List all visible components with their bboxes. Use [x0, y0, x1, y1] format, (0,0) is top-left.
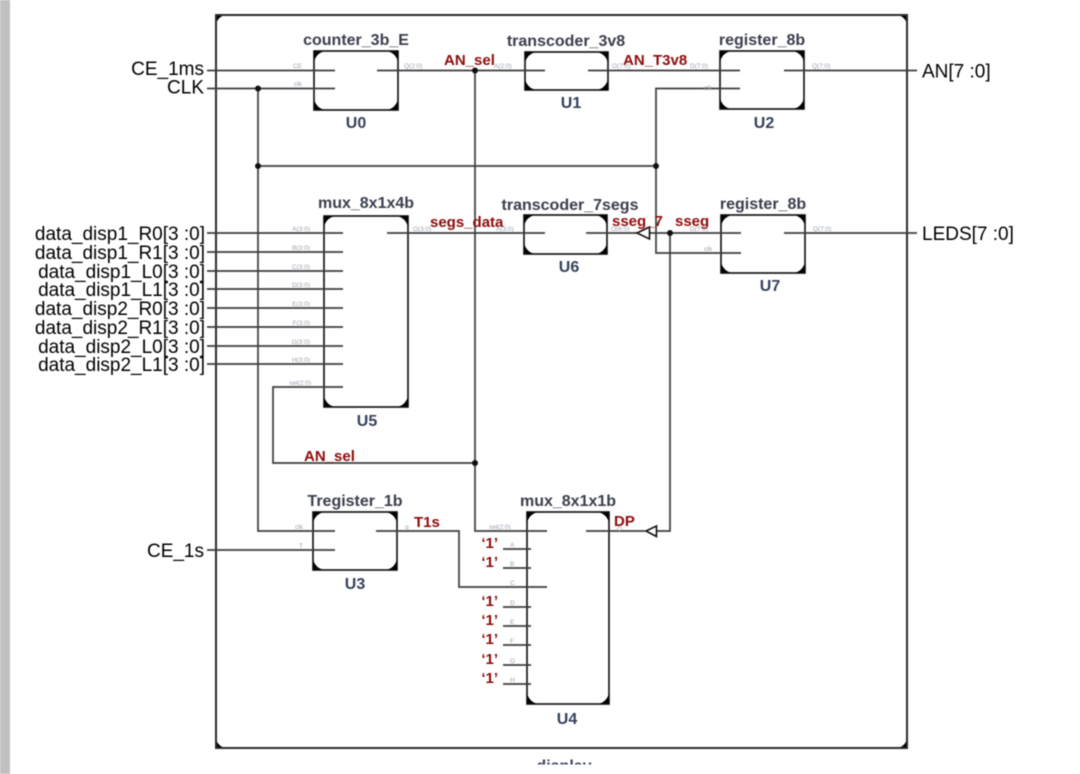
- sheet name display (clipped): [536, 758, 591, 774]
- pin stub U4.A: [503, 548, 531, 550]
- svg-text:AN_T3v8: AN_T3v8: [623, 52, 687, 69]
- block U3 Tregister_1b: [313, 512, 397, 570]
- wire data_disp1_R1 to U5.B: [207, 251, 343, 253]
- svg-text:E: E: [510, 619, 515, 626]
- wire CLK vertical trunk: [258, 89, 335, 532]
- svg-text:data_disp1_L1[3 :0]: data_disp1_L1[3 :0]: [38, 280, 205, 301]
- svg-text:U7: U7: [760, 278, 781, 295]
- svg-text:C: C: [510, 580, 515, 587]
- svg-text:AN_sel: AN_sel: [444, 52, 495, 69]
- block U6 transcoder_7segs: [524, 215, 607, 254]
- svg-text:A(3:0): A(3:0): [496, 226, 514, 233]
- svg-text:T: T: [299, 543, 303, 550]
- svg-text:clk: clk: [704, 246, 713, 253]
- svg-text:segs_data: segs_data: [430, 214, 504, 231]
- pin stub U4.B: [503, 567, 531, 569]
- svg-text:G(3:0): G(3:0): [292, 339, 310, 346]
- svg-text:U6: U6: [559, 259, 580, 276]
- svg-text:mux_8x1x1b: mux_8x1x1b: [520, 493, 616, 510]
- svg-text:CE: CE: [293, 63, 303, 70]
- junction AN_sel bottom: [472, 460, 478, 466]
- svg-text:O: O: [617, 526, 622, 533]
- svg-text:data_disp2_L1[3 :0]: data_disp2_L1[3 :0]: [38, 355, 205, 376]
- wire data_disp1_L1 to U5.D: [207, 288, 343, 290]
- svg-text:U1: U1: [561, 95, 582, 112]
- svg-text:F: F: [510, 638, 514, 645]
- block U5 mux_8x1x4b: [324, 216, 408, 407]
- wire CE_1ms to U0.CE: [207, 70, 335, 72]
- pin stub U4.D: [503, 606, 531, 608]
- junction sseg: [667, 230, 673, 236]
- svg-text:LEDS[7 :0]: LEDS[7 :0]: [922, 224, 1014, 245]
- svg-text:‘1’: ‘1’: [481, 670, 498, 687]
- wire CLK to U0.clk: [207, 88, 335, 90]
- svg-text:register_8b: register_8b: [719, 32, 805, 49]
- wire data_disp2_L0 to U5.G: [207, 345, 343, 347]
- wire U5.sel loop: [273, 387, 475, 463]
- wire data_disp2_R1 to U5.F: [207, 326, 343, 328]
- svg-text:O(7:0): O(7:0): [612, 63, 630, 70]
- wire U2.Q to port AN: [784, 70, 917, 72]
- wire U3.Q (net T1s): [376, 531, 547, 587]
- svg-text:A(3:0): A(3:0): [292, 226, 310, 233]
- wire data_disp2_L1 to U5.H: [207, 363, 343, 365]
- svg-text:data_disp1_R0[3 :0]: data_disp1_R0[3 :0]: [35, 224, 205, 245]
- pin stub U4.G: [503, 664, 531, 666]
- svg-text:clk: clk: [704, 85, 713, 92]
- svg-text:D: D: [510, 600, 515, 607]
- junction CLK at vertical trunk: [255, 86, 261, 92]
- wire triangle to U7.D (net sseg): [650, 232, 741, 234]
- wire clk branch horizontal: [258, 165, 656, 167]
- svg-text:T1s: T1s: [414, 514, 440, 531]
- wire AN_sel vertical trunk: [475, 71, 547, 532]
- svg-text:sel(2:0): sel(2:0): [289, 380, 311, 387]
- svg-text:H: H: [510, 677, 515, 684]
- svg-text:q: q: [405, 524, 409, 531]
- scrollbar strip: [0, 0, 10, 774]
- svg-text:transcoder_7segs: transcoder_7segs: [502, 197, 639, 214]
- svg-text:sel(2:0): sel(2:0): [489, 524, 511, 531]
- svg-text:Q(7:0): Q(7:0): [813, 226, 831, 233]
- svg-text:H(3:0): H(3:0): [292, 357, 310, 364]
- svg-text:AN[7 :0]: AN[7 :0]: [922, 62, 991, 83]
- block U2 register_8b: [720, 51, 804, 109]
- svg-text:Tregister_1b: Tregister_1b: [307, 493, 402, 510]
- svg-text:‘1’: ‘1’: [481, 612, 498, 629]
- wire U6.O to triangle (net sseg_7): [586, 232, 638, 234]
- wire clk branch to U7.clk: [656, 166, 741, 253]
- wire U0.Q to U1.A (net AN_sel): [377, 70, 545, 72]
- wire data_disp1_R0 to U5.A: [207, 232, 343, 234]
- svg-text:mux_8x1x4b: mux_8x1x4b: [318, 195, 414, 212]
- svg-text:A(2:0): A(2:0): [494, 63, 512, 70]
- svg-text:O(6:0): O(6:0): [611, 226, 629, 233]
- svg-text:register_8b: register_8b: [720, 196, 806, 213]
- svg-text:AN_sel: AN_sel: [304, 448, 355, 465]
- svg-text:‘1’: ‘1’: [481, 631, 498, 648]
- pin stub U4.E: [503, 625, 531, 627]
- junction clk branch: [255, 163, 261, 169]
- svg-text:U5: U5: [357, 413, 378, 430]
- svg-text:data_disp2_R0[3 :0]: data_disp2_R0[3 :0]: [35, 299, 205, 320]
- svg-text:‘1’: ‘1’: [481, 651, 498, 668]
- wire clk branch to U2.clk: [656, 89, 740, 167]
- connector triangle DP: [646, 526, 657, 537]
- svg-text:B(3:0): B(3:0): [292, 245, 310, 252]
- svg-text:A: A: [510, 542, 515, 549]
- svg-text:O(3:0): O(3:0): [413, 226, 431, 233]
- svg-text:U4: U4: [557, 711, 578, 728]
- svg-text:‘1’: ‘1’: [481, 554, 498, 571]
- junction dots: [255, 68, 673, 467]
- block U1 transcoder_3v8: [525, 52, 608, 90]
- wire data_disp2_R0 to U5.E: [207, 307, 343, 309]
- junction clk at U2/U7 split: [653, 163, 659, 169]
- svg-text:CLK: CLK: [167, 78, 204, 99]
- junction AN_sel top: [472, 68, 478, 74]
- svg-text:E(3:0): E(3:0): [292, 301, 310, 308]
- wire U7.Q to port LEDS: [784, 232, 917, 234]
- wire sseg vertical to DP: [656, 233, 670, 531]
- wire data_disp1_L0 to U5.C: [207, 270, 343, 272]
- svg-text:D(3:0): D(3:0): [292, 282, 310, 289]
- svg-text:data_disp1_R1[3 :0]: data_disp1_R1[3 :0]: [35, 243, 205, 264]
- svg-text:U3: U3: [345, 576, 366, 593]
- wire U1.O to U2.D (net AN_T3v8): [588, 70, 740, 72]
- sheet border: [216, 15, 907, 748]
- block U0 counter_3b_E: [314, 51, 398, 110]
- svg-text:U2: U2: [754, 115, 775, 132]
- svg-text:‘1’: ‘1’: [481, 535, 498, 552]
- svg-text:D(7:0): D(7:0): [690, 226, 708, 233]
- block U7 register_8b: [721, 215, 805, 273]
- block U4 mux_8x1x1b: [527, 512, 609, 704]
- svg-text:‘1’: ‘1’: [481, 593, 498, 610]
- svg-text:C(3:0): C(3:0): [292, 264, 310, 271]
- svg-text:CE_1s: CE_1s: [147, 541, 204, 562]
- pin stub U4.H: [503, 683, 531, 685]
- svg-text:F(3:0): F(3:0): [293, 320, 310, 327]
- svg-text:B: B: [510, 561, 514, 568]
- pin stub U4.F: [503, 644, 531, 646]
- svg-text:clk: clk: [295, 524, 304, 531]
- wire U4.DP to triangle: [586, 530, 645, 532]
- svg-text:U0: U0: [346, 115, 367, 132]
- svg-text:clk: clk: [294, 81, 303, 88]
- svg-text:counter_3b_E: counter_3b_E: [303, 32, 409, 49]
- wire U5.O to U6.A (net segs_data): [387, 232, 545, 234]
- svg-text:transcoder_3v8: transcoder_3v8: [507, 33, 625, 50]
- wire CE_1s to U3.T: [207, 549, 335, 551]
- svg-text:Q(2:0): Q(2:0): [404, 63, 422, 70]
- svg-text:G: G: [510, 658, 515, 665]
- svg-text:Q(7:0): Q(7:0): [812, 63, 830, 70]
- connector triangle sseg_7: [637, 227, 650, 239]
- svg-text:data_disp2_R1[3 :0]: data_disp2_R1[3 :0]: [35, 318, 205, 339]
- svg-text:D(7:0): D(7:0): [690, 63, 708, 70]
